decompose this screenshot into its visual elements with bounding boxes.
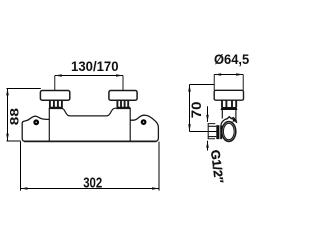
body top edge with center dip (49, 108, 130, 116)
svg-text:130/170: 130/170 (71, 59, 119, 75)
extension line right handle center (122, 76, 124, 91)
dimension 302 arrow right (152, 187, 159, 190)
dimension 302 arrow left (21, 187, 28, 190)
extension line disk right (242, 75, 244, 91)
dimension Ø64,5 line (214, 74, 243, 76)
union nut highlight stripe (218, 125, 221, 139)
dimension 88 extension line top (7, 88, 41, 90)
union collar tab (232, 117, 237, 122)
left handle stem ribs (50, 100, 62, 107)
dimension 88 arrow down (6, 134, 9, 141)
side flare base (221, 107, 238, 110)
left valve flare base (49, 107, 64, 109)
right valve flare base (116, 107, 131, 109)
extension line disk left (213, 75, 215, 91)
dimension 70 extension line top (190, 84, 215, 86)
dimension 302 line (21, 188, 160, 190)
body left internal vertical (48, 108, 50, 141)
left handle cap (40, 91, 69, 101)
G1/2 leader upper arrow (207, 106, 209, 122)
dimension 130/170 arrow right (116, 74, 123, 77)
union ring inner (223, 123, 234, 139)
dimension 70 arrow down (188, 124, 191, 131)
left end block outline (22, 116, 49, 141)
side handle disk (214, 90, 243, 100)
union ring outer (222, 122, 236, 142)
extension line left handle center (54, 76, 56, 91)
dimension 88 extension line bottom (7, 140, 21, 142)
svg-text:70: 70 (189, 102, 204, 119)
dimension 302 extension line left (20, 142, 22, 191)
svg-text:Ø64,5: Ø64,5 (214, 52, 249, 68)
union nut (216, 125, 222, 139)
union collar arc (221, 117, 237, 125)
side body tube (222, 110, 236, 122)
right handle cap (109, 91, 137, 101)
svg-text:302: 302 (83, 174, 102, 191)
union centerline (190, 131, 231, 133)
svg-text:88: 88 (7, 108, 21, 125)
dimension 88 arrow up (6, 88, 9, 95)
dimension 130/170 line (55, 75, 123, 77)
body right internal vertical (129, 108, 131, 141)
right handle stem ribs (117, 100, 128, 107)
left block screw dot (34, 121, 38, 125)
dimension 70 line (189, 85, 191, 132)
G1/2 leader lower arrow (207, 141, 209, 151)
dimension 302 extension line right (158, 142, 160, 191)
dimension Ø64,5 arrow left (214, 73, 221, 76)
side stem ribs (222, 100, 236, 107)
right block screw dot (142, 120, 146, 124)
right end block outline (130, 115, 158, 141)
dimension Ø64,5 arrow right (236, 73, 243, 76)
dimension 130/170 arrow left (55, 74, 62, 77)
body bottom edge (24, 140, 157, 142)
G1/2 thread stub (208, 124, 216, 139)
dimension 88 line (7, 89, 9, 141)
dimension 70 arrow up (188, 85, 191, 92)
wall flange plate lines (208, 124, 216, 139)
